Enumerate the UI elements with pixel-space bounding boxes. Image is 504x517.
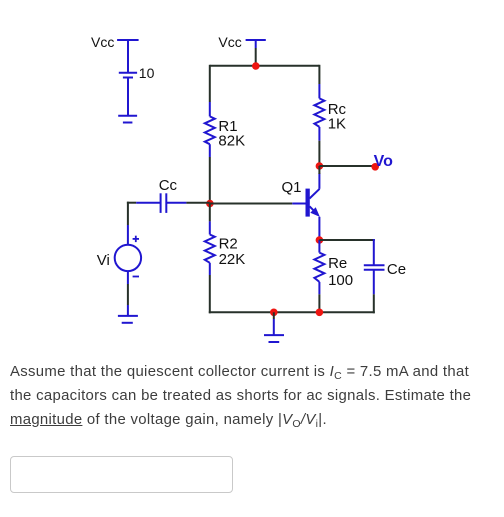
wire Vcc terminal to top rail <box>255 48 257 66</box>
svg-text:Vcc: Vcc <box>218 34 241 50</box>
wire bottom rail <box>209 311 375 313</box>
ground under battery <box>118 116 137 123</box>
wire Vi top lead <box>127 225 129 245</box>
wire top rail to Rc <box>318 65 320 84</box>
svg-text:Vi: Vi <box>97 252 110 269</box>
question text <box>10 360 504 432</box>
wire top rail <box>210 65 320 67</box>
battery Vcc terminal T <box>117 40 139 72</box>
wire collector node to Vo <box>319 165 375 167</box>
source Vi circle <box>115 245 141 271</box>
wire Vi bottom lead <box>127 271 129 284</box>
node Vcc junction <box>252 62 260 70</box>
wire collector node to transistor <box>318 166 320 174</box>
transistor Q1 <box>292 173 320 240</box>
wire base node to transistor <box>210 203 292 205</box>
wire Ce to bottom rail <box>373 294 375 313</box>
wire Ce bottom lead <box>373 270 375 295</box>
node ground junction <box>270 309 278 317</box>
svg-text:Q1: Q1 <box>282 179 302 196</box>
svg-text:10: 10 <box>139 65 155 81</box>
ground under Vi <box>118 305 138 323</box>
wire base node to R2 <box>209 204 211 222</box>
svg-text:R2: R2 <box>219 236 238 253</box>
wire Cc to base node <box>186 202 209 204</box>
node emitter junction <box>316 236 324 244</box>
wire top rail to R1 <box>209 65 211 102</box>
ground at bottom rail <box>264 319 284 342</box>
svg-text:Vo: Vo <box>374 153 393 170</box>
svg-text:100: 100 <box>328 272 353 289</box>
svg-text:1K: 1K <box>328 115 346 132</box>
node Vo terminal <box>371 163 379 171</box>
wire corner down to Vi <box>127 202 129 225</box>
wire Ce top lead <box>373 239 375 265</box>
capacitor Ce <box>364 265 385 270</box>
svg-text:Re: Re <box>328 255 347 272</box>
svg-text:82K: 82K <box>218 132 245 149</box>
label plus sign <box>133 236 139 242</box>
label minus sign <box>133 276 139 278</box>
svg-text:Ce: Ce <box>387 261 406 278</box>
wire Re to bottom rail <box>318 294 320 313</box>
resistor R2 <box>205 221 215 275</box>
Vcc rail terminal T <box>246 40 266 48</box>
svg-text:22K: 22K <box>219 251 246 268</box>
svg-text:Cc: Cc <box>159 177 178 194</box>
node emitter rail junction <box>316 309 324 317</box>
wire Vi corner to Cc <box>127 202 136 204</box>
wire R1 to base node <box>209 157 211 204</box>
wire R2 to bottom rail <box>209 275 211 313</box>
svg-text:Vcc: Vcc <box>91 34 114 50</box>
answer input box <box>10 456 233 493</box>
wire Rc to collector node <box>318 141 320 166</box>
wire ground stub <box>273 312 275 319</box>
battery B1 plates <box>119 73 137 116</box>
wire Cc right lead <box>166 202 186 204</box>
wire Vi to ground <box>127 284 129 305</box>
node collector junction <box>316 162 324 170</box>
wire emitter node to Ce branch <box>319 239 374 241</box>
capacitor Cc <box>161 193 167 213</box>
resistor Rc <box>314 84 324 141</box>
node base junction <box>206 200 214 208</box>
resistor R1 <box>205 102 215 157</box>
wire Cc left lead <box>136 202 160 204</box>
resistor Re <box>314 240 324 294</box>
